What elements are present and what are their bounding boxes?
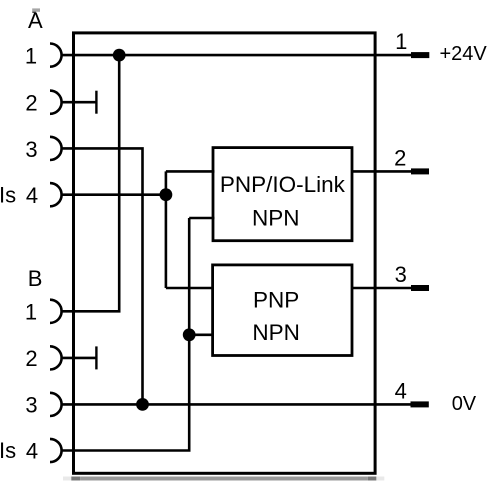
svg-text:1: 1 — [25, 300, 37, 325]
svg-text:1: 1 — [25, 43, 37, 68]
svg-text:+24V: +24V — [440, 43, 488, 65]
svg-text:2: 2 — [25, 90, 37, 115]
svg-text:Is: Is — [0, 182, 16, 207]
svg-text:4: 4 — [395, 378, 407, 403]
svg-text:B: B — [28, 266, 43, 291]
svg-text:3: 3 — [25, 137, 37, 162]
svg-text:4: 4 — [26, 439, 38, 464]
svg-text:Is: Is — [0, 438, 16, 463]
svg-text:2: 2 — [394, 145, 406, 170]
svg-text:4: 4 — [26, 183, 38, 208]
svg-text:0V: 0V — [452, 393, 477, 415]
svg-text:NPN: NPN — [252, 205, 300, 230]
svg-text:NPN: NPN — [252, 320, 300, 345]
svg-text:PNP: PNP — [253, 287, 299, 312]
svg-text:1: 1 — [395, 29, 407, 54]
svg-text:PNP/IO-Link: PNP/IO-Link — [220, 172, 346, 197]
svg-text:3: 3 — [25, 393, 37, 418]
svg-text:3: 3 — [395, 262, 407, 287]
svg-text:A: A — [28, 8, 43, 33]
svg-text:2: 2 — [25, 346, 37, 371]
